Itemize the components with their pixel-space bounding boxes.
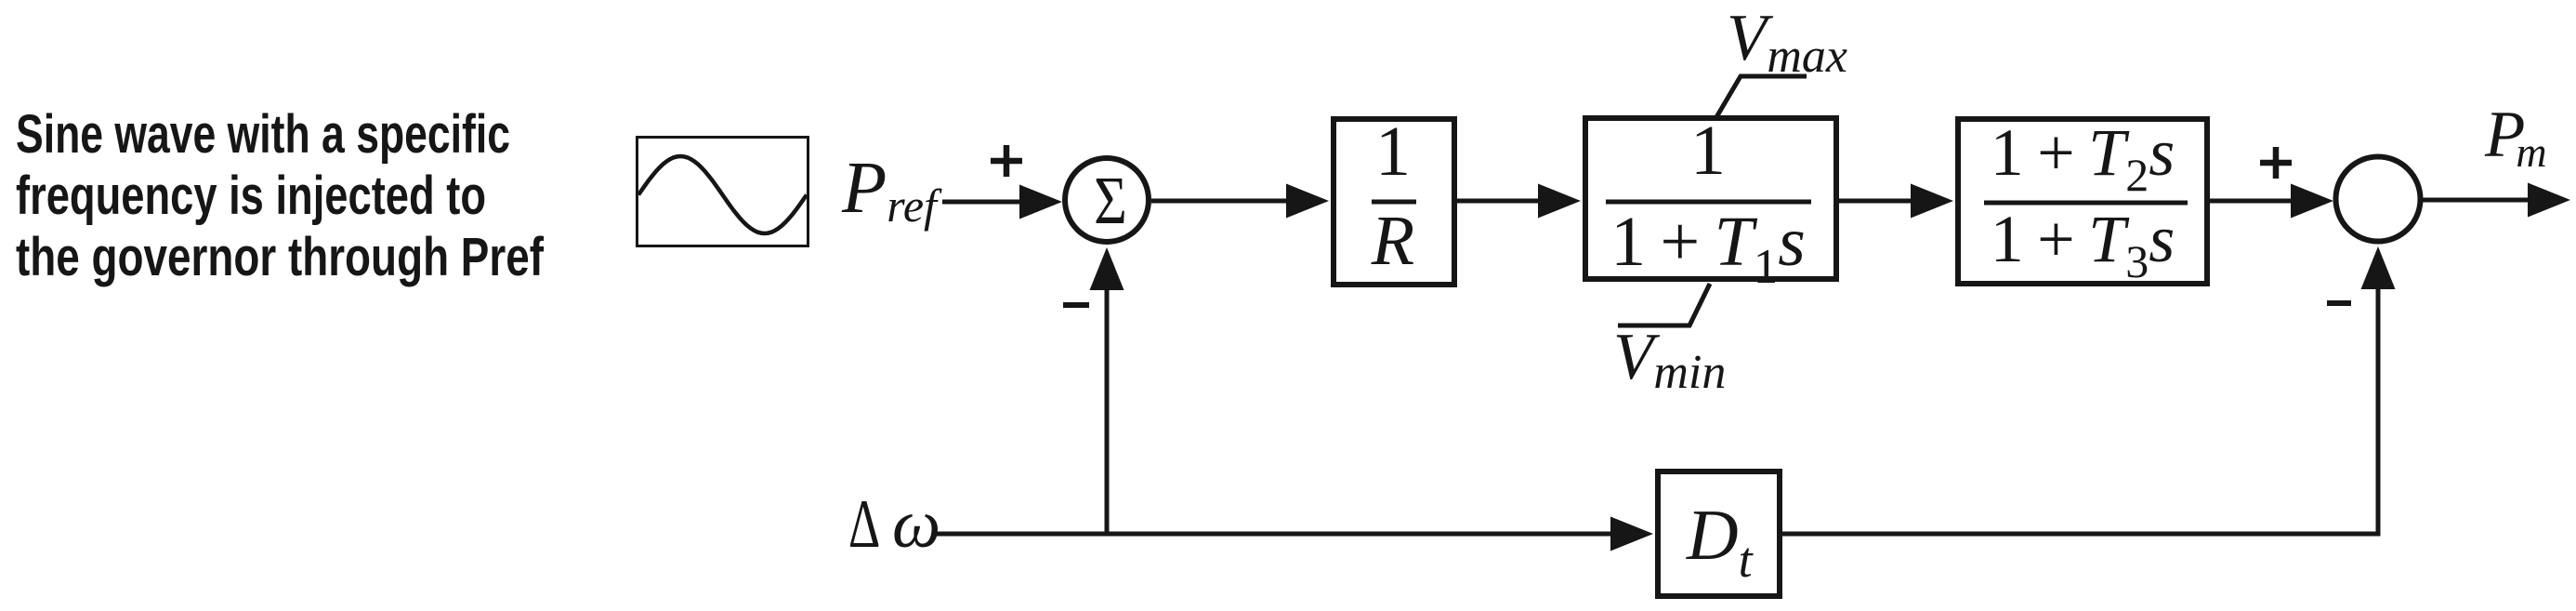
summing junction U1 (sigma) xyxy=(1065,158,1149,242)
svg-text:Sine wave with a specific: Sine wave with a specific xyxy=(16,104,510,165)
wire 1/R to governor block xyxy=(1457,199,1544,204)
fraction bar of lead-lag block xyxy=(1984,201,2188,206)
svg-text:1: 1 xyxy=(1690,112,1726,190)
plus sign at summing junction input xyxy=(991,145,1022,177)
minus sign at output summing junction lower input xyxy=(2327,300,2351,306)
wire branch up to sigma junction xyxy=(1105,286,1110,534)
arrowhead into governor block xyxy=(1538,184,1581,219)
svg-text:Σ: Σ xyxy=(1094,163,1127,238)
node delta-omega label xyxy=(848,486,940,563)
wire delta-omega to Dt block xyxy=(935,532,1619,537)
minus sign at summing junction lower input xyxy=(1063,302,1089,308)
svg-text:1: 1 xyxy=(1375,113,1411,191)
wire sigma to 1/R block xyxy=(1151,199,1294,204)
Vmin limit mark xyxy=(1618,284,1710,325)
block 1/R xyxy=(1334,119,1454,285)
sine wave curve xyxy=(638,156,807,233)
summing junction U2 (output) xyxy=(2336,157,2421,242)
svg-text:the governor through Pref: the governor through Pref xyxy=(16,227,545,287)
arrowhead into 1/R block xyxy=(1286,184,1329,219)
block 1/(1+T1s) governor xyxy=(1585,118,1836,279)
plus sign at output summing junction xyxy=(2260,147,2292,179)
annotation text: sine wave note xyxy=(16,104,545,287)
arrowhead into lead-lag block xyxy=(1911,184,1953,219)
sine-wave source box xyxy=(637,138,808,246)
arrowhead into Dt block xyxy=(1610,517,1653,551)
wire lead-lag to output summing junction xyxy=(2210,199,2297,204)
svg-text:R: R xyxy=(1371,202,1414,280)
arrowhead into output summing junction xyxy=(2291,184,2333,219)
svg-text:frequency is injected to: frequency is injected to xyxy=(16,166,486,226)
fraction bar of governor block xyxy=(1606,200,1811,205)
block (1+T2s)/(1+T3s) lead-lag xyxy=(1958,119,2207,284)
arrowhead into sigma from below xyxy=(1090,247,1124,290)
fraction bar of 1/R xyxy=(1372,200,1416,205)
wire governor to lead-lag block xyxy=(1839,199,1917,204)
wire Dt to output junction corner xyxy=(1782,286,2378,534)
arrowhead of output xyxy=(2528,183,2570,218)
svg-text:ω: ω xyxy=(892,486,940,563)
node Pref label xyxy=(841,148,942,232)
block Dt xyxy=(1658,472,1780,596)
Vmax limit mark xyxy=(1716,76,1807,117)
svg-text:Δ: Δ xyxy=(848,486,880,562)
arrowhead into output junction from below xyxy=(2361,246,2396,289)
wire output arrow Pm xyxy=(2421,198,2534,203)
node Pm label xyxy=(2484,99,2547,176)
arrowhead into summing junction xyxy=(1019,185,1062,219)
wire Pref to summing junction xyxy=(942,200,1024,205)
